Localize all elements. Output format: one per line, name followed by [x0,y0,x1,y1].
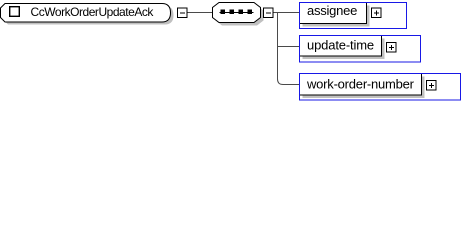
collapse box (minus) of sequence [264,8,274,18]
sequence dots motif [220,10,254,15]
element work-order-number (box with shadow inside complexType frame) [300,74,425,99]
wire vertical trunk [277,13,279,80]
element update-time (box with shadow inside complexType frame) [300,36,385,60]
complexType frame of update-time (blue) [300,36,421,63]
element assignee (box with shadow inside complexType frame) [300,3,370,27]
sequence compositor (octagon) [213,3,264,26]
element icon (square glyph) [10,7,20,17]
expand box (plus) of work-order-number [427,81,437,91]
svg-text:update-time: update-time [307,37,374,52]
collapse box (minus) of root element [178,8,188,18]
expand box (plus) of assignee [372,8,382,18]
svg-text:CcWorkOrderUpdateAck: CcWorkOrderUpdateAck [31,5,155,19]
svg-text:assignee: assignee [307,3,357,18]
expand box (plus) of update-time [387,43,397,53]
complexType frame of assignee (blue) [300,3,407,29]
element CcWorkOrderUpdateAck (root, rounded box with shadow) [1,4,174,25]
wire branch 3 curve (work-order-number) [278,79,301,85]
wire sequence to child branch 1 (assignee) [273,12,301,14]
complexType frame of work-order-number (blue) [300,74,461,101]
svg-text:work-order-number: work-order-number [306,77,415,92]
wire root element to sequence compositor [187,12,213,14]
wire branch 2 (update-time) [278,46,301,48]
